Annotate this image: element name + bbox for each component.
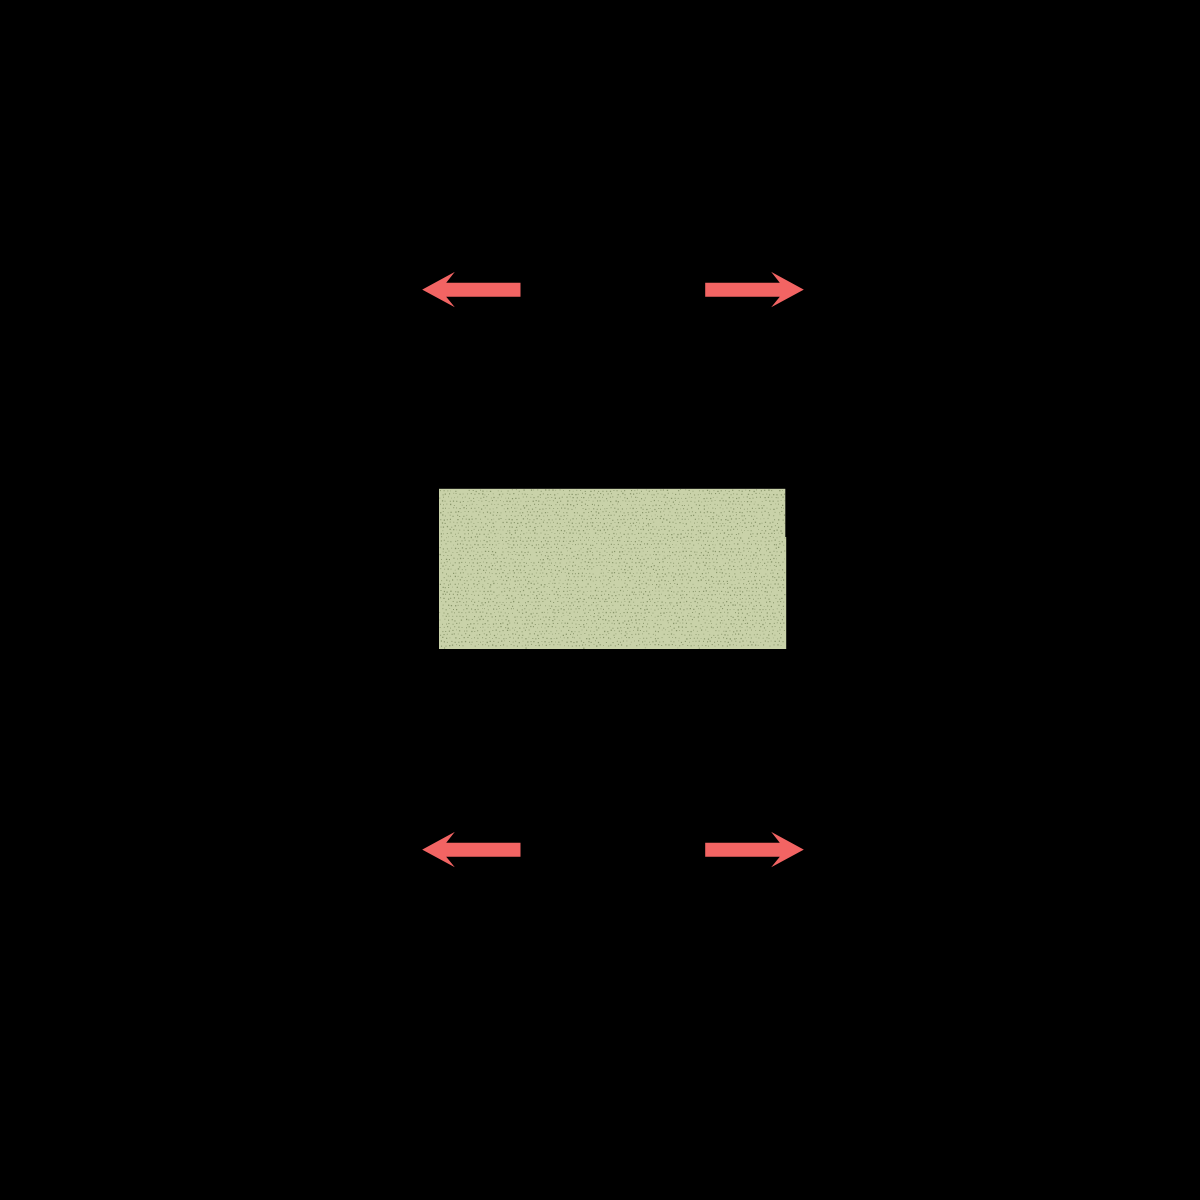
bottom-left force arrow (pointing left) [422,832,520,867]
top-right force arrow (pointing right) [705,272,804,307]
green stippled block (rubber object) [439,489,786,649]
top-left force arrow (pointing left) [422,272,520,307]
bottom-right force arrow (pointing right) [705,832,804,867]
